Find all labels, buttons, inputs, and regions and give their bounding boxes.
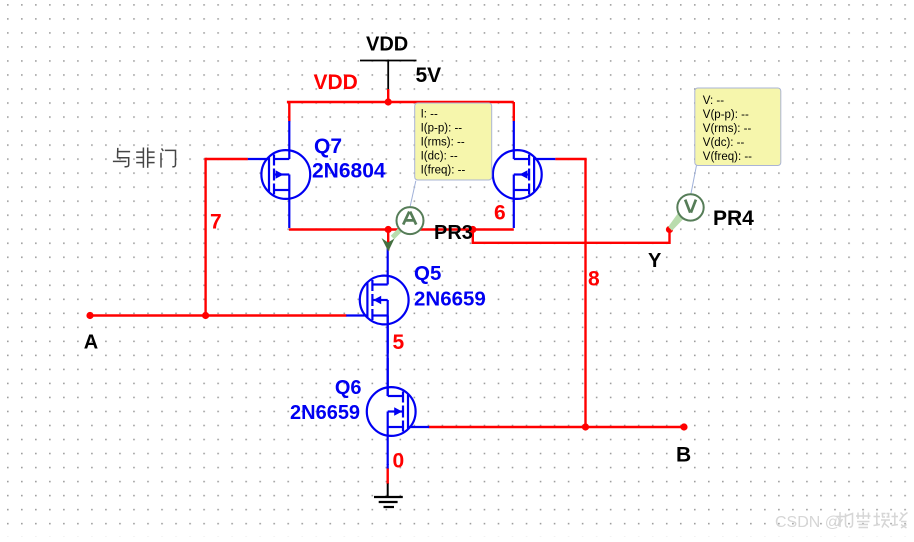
- svg-text:V(rms): --: V(rms): --: [703, 123, 752, 135]
- svg-text:I(rms): --: I(rms): --: [421, 136, 465, 148]
- svg-text:V(dc): --: V(dc): --: [703, 137, 745, 149]
- svg-text:I: --: I: --: [421, 108, 438, 120]
- svg-text:VDD: VDD: [314, 71, 358, 94]
- svg-text:I(freq): --: I(freq): --: [421, 164, 466, 176]
- svg-text:PR3: PR3: [434, 222, 473, 244]
- svg-text:A: A: [84, 331, 98, 353]
- svg-text:5: 5: [393, 331, 405, 354]
- svg-text:Q5: Q5: [414, 262, 441, 285]
- svg-text:2N6659: 2N6659: [290, 402, 360, 424]
- svg-text:V(p-p): --: V(p-p): --: [703, 109, 749, 121]
- svg-text:6: 6: [494, 202, 506, 225]
- svg-text:Y: Y: [648, 250, 662, 272]
- svg-text:VDD: VDD: [366, 33, 408, 55]
- svg-text:V: --: V: --: [703, 95, 724, 107]
- svg-text:I(p-p): --: I(p-p): --: [421, 122, 463, 134]
- svg-text:CSDN @: CSDN @: [775, 514, 841, 531]
- svg-text:5V: 5V: [416, 64, 442, 87]
- svg-text:V(freq): --: V(freq): --: [703, 151, 752, 163]
- svg-text:I(dc): --: I(dc): --: [421, 150, 458, 162]
- svg-text:PR4: PR4: [713, 207, 754, 230]
- svg-text:7: 7: [210, 210, 222, 233]
- svg-text:2N6804: 2N6804: [312, 160, 386, 183]
- svg-text:8: 8: [588, 268, 600, 291]
- svg-text:0: 0: [393, 449, 405, 472]
- svg-text:Q7: Q7: [314, 135, 342, 158]
- svg-text:B: B: [676, 443, 691, 466]
- svg-text:Q6: Q6: [335, 377, 362, 399]
- svg-text:2N6659: 2N6659: [414, 288, 486, 311]
